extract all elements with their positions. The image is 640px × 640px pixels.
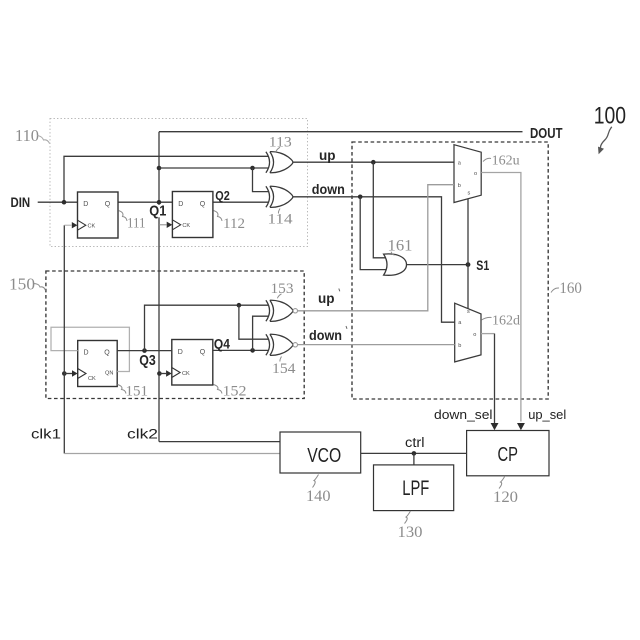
svg-text:o: o xyxy=(473,332,476,338)
label 161 with leader xyxy=(388,238,413,256)
label 120 with leader xyxy=(493,476,518,506)
label clk2 xyxy=(127,427,158,442)
label Q3 xyxy=(139,352,156,369)
label S1 xyxy=(476,257,489,273)
white mask under Q1 label xyxy=(149,205,168,218)
svg-text:o: o xyxy=(474,171,477,177)
wire mux 162d output stub (gray) xyxy=(481,333,495,335)
label 160 with leader xyxy=(551,280,582,297)
svg-text:down_sel: down_sel xyxy=(434,407,493,422)
wire ctrl stub to LPF xyxy=(413,453,415,465)
block LPF xyxy=(374,465,454,511)
svg-text:150: 150 xyxy=(9,275,35,294)
svg-text:130: 130 xyxy=(398,524,423,541)
block VCO xyxy=(280,432,361,473)
wire S1 up to mux 162u select xyxy=(467,199,469,265)
svg-text:S1: S1 xyxy=(476,257,489,273)
node ctrl xyxy=(412,451,417,456)
svg-text:QN: QN xyxy=(105,370,113,376)
mux 162u xyxy=(454,145,481,203)
svg-text:DIN: DIN xyxy=(11,194,31,210)
svg-text:up: up xyxy=(318,291,335,306)
label up' xyxy=(318,289,340,306)
svg-text:140: 140 xyxy=(306,488,331,505)
wire down' (gray) XOR154 to mux 162d input b xyxy=(298,344,455,346)
mux 162d xyxy=(455,303,481,362)
label ctrl xyxy=(405,435,425,450)
wire DIN input xyxy=(38,201,78,203)
wire Q4: FF152.Q to XOR154 xyxy=(213,349,268,351)
wire Q3: FF151.Q to FF152.D xyxy=(117,350,172,352)
node branch to XOR114 xyxy=(250,166,255,171)
bubble on XOR154 output xyxy=(293,343,297,347)
label 140 with leader xyxy=(306,475,331,505)
svg-text:ctrl: ctrl xyxy=(405,435,425,450)
label DIN xyxy=(11,194,31,210)
label Q1 xyxy=(149,203,166,220)
label Q4 xyxy=(214,335,230,351)
dashed box 160 (selector block) xyxy=(352,142,548,399)
svg-text:Q: Q xyxy=(104,350,110,357)
wire branch down to XOR154 upper input xyxy=(239,305,268,339)
svg-text:Q: Q xyxy=(200,201,206,208)
svg-text:clk2: clk2 xyxy=(127,427,158,442)
svg-text:113: 113 xyxy=(269,134,292,150)
wire clk1 stub to FF151 xyxy=(64,373,72,375)
wire down (XOR114 output) xyxy=(293,197,455,322)
label 112 with leader xyxy=(214,211,246,232)
svg-text:Q: Q xyxy=(105,201,111,208)
svg-text:D: D xyxy=(83,201,88,208)
wire DOUT line xyxy=(159,131,523,133)
svg-text:s: s xyxy=(468,191,471,197)
wire clk2 horizontal to VCO xyxy=(159,441,280,443)
clock arrow into FF152 CK xyxy=(166,370,172,376)
label 150 with leader xyxy=(9,275,46,294)
svg-text:down: down xyxy=(312,182,345,197)
svg-text:CK: CK xyxy=(182,371,190,377)
wire Q2: FF112.Q to XOR114 lower input xyxy=(213,201,268,203)
node up branch to OR161 xyxy=(371,160,376,165)
wire Q3 riser to XOR153 xyxy=(145,305,269,350)
svg-text:154: 154 xyxy=(272,361,296,377)
wire clk1 horizontal to VCO (gray) xyxy=(64,453,280,455)
block CP xyxy=(467,431,549,476)
dashed box 150 (phase detector 2) xyxy=(46,271,304,399)
svg-text:b: b xyxy=(458,343,461,349)
svg-text:CK: CK xyxy=(88,376,96,382)
svg-text:CP: CP xyxy=(498,444,519,466)
svg-text:D: D xyxy=(178,349,183,356)
svg-text:100: 100 xyxy=(594,103,626,130)
node clk2 at FF152 xyxy=(157,371,162,376)
wire down to OR161 input xyxy=(360,197,388,270)
wire branch down to XOR114 upper input xyxy=(253,168,269,192)
svg-text:down: down xyxy=(309,328,342,343)
node Q1 branch xyxy=(157,166,162,171)
svg-text:D: D xyxy=(178,201,183,208)
label 110 with leader xyxy=(15,126,50,145)
wire up' (gray) XOR153 to mux 162u input b xyxy=(298,185,455,311)
label 151 with leader xyxy=(118,384,149,400)
svg-text:Q4: Q4 xyxy=(214,335,230,351)
wire S1 from OR161 output xyxy=(407,264,468,266)
node Q3 xyxy=(142,348,147,353)
arrow under 100 xyxy=(598,127,612,155)
clock stub into FF112 CK xyxy=(159,222,172,228)
label 100 xyxy=(594,103,626,130)
svg-text:CK: CK xyxy=(88,223,96,229)
svg-text:162d: 162d xyxy=(492,314,520,329)
wire up (XOR113 output to mux 162u input a) xyxy=(293,161,454,163)
node Q3 branch xyxy=(237,303,242,308)
svg-text:Q1: Q1 xyxy=(149,203,166,220)
svg-text:VCO: VCO xyxy=(307,445,341,467)
node down branch to OR161 xyxy=(358,195,363,200)
label 152 with leader xyxy=(214,384,247,400)
svg-text:Q: Q xyxy=(200,349,206,356)
flip-flop 152 xyxy=(172,340,213,386)
label down xyxy=(312,182,345,197)
svg-text:160: 160 xyxy=(559,280,582,297)
XOR gate 114 xyxy=(266,186,293,207)
label 153 with leader xyxy=(271,281,294,299)
dashed box 110 (phase detector 1) xyxy=(50,119,308,247)
wire S1 down to mux 162d select xyxy=(467,265,469,309)
XOR gate 154 xyxy=(266,334,293,355)
wire clk1 stub to FF111 (faint) xyxy=(64,224,72,226)
svg-text:114: 114 xyxy=(268,212,294,228)
label Q2 xyxy=(215,188,230,203)
clock arrow into FF151 CK xyxy=(72,370,78,376)
svg-text:Q3: Q3 xyxy=(139,352,156,369)
label clk1 xyxy=(31,427,61,442)
flip-flop 111 xyxy=(78,192,119,238)
wire clk2 stub to FF152 xyxy=(159,373,166,375)
svg-text:112: 112 xyxy=(223,216,245,232)
svg-text:b: b xyxy=(458,183,461,189)
label 114 with leader xyxy=(268,209,294,228)
svg-text:LPF: LPF xyxy=(402,477,429,500)
wire mux 162u output to up_sel (gray) xyxy=(481,173,521,422)
label 111 with leader xyxy=(119,211,146,232)
wire up to OR161 input xyxy=(373,162,387,258)
svg-text:110: 110 xyxy=(15,126,39,145)
flip-flop 112 xyxy=(172,192,213,238)
OR gate 161 xyxy=(384,254,407,275)
arrow up_sel into CP xyxy=(517,423,525,430)
wire down_sel to CP xyxy=(494,334,496,423)
svg-text:153: 153 xyxy=(271,281,294,297)
wire FF151 QN feedback loop (gray) xyxy=(51,327,129,371)
node Q4 branch xyxy=(250,348,255,353)
wire DIN riser to XOR113 xyxy=(64,156,268,202)
svg-text:clk1: clk1 xyxy=(31,427,61,442)
label DOUT xyxy=(530,126,563,142)
label down_sel xyxy=(434,407,493,422)
svg-text:up: up xyxy=(319,148,336,163)
label up xyxy=(319,148,336,163)
wire Q1: FF111.Q to FF112.D xyxy=(118,201,172,203)
svg-text:151: 151 xyxy=(126,384,149,400)
XOR gate 113 xyxy=(266,152,293,173)
clock arrow into FF111 CK xyxy=(72,222,78,228)
svg-text:s: s xyxy=(467,309,470,315)
svg-text:111: 111 xyxy=(127,216,146,232)
svg-text:162u: 162u xyxy=(492,152,520,167)
svg-text:120: 120 xyxy=(493,489,518,506)
label 113 with leader xyxy=(269,134,292,152)
node Q1 junction xyxy=(157,200,162,205)
svg-text:DOUT: DOUT xyxy=(530,126,563,142)
wire clk1 vertical xyxy=(63,225,65,453)
bubble on XOR153 output xyxy=(293,309,297,313)
label up_sel xyxy=(528,407,566,422)
node DIN junction xyxy=(62,200,67,205)
node S1 xyxy=(466,262,471,267)
label 162u with leader xyxy=(483,152,520,167)
flip-flop 151 xyxy=(78,341,118,387)
XOR gate 153 xyxy=(266,300,293,321)
wire branch up to XOR153 lower input xyxy=(253,316,269,350)
label down' xyxy=(309,326,347,343)
svg-text:152: 152 xyxy=(223,384,247,400)
wire Q1 riser / clk2 vertical xyxy=(158,132,160,442)
node clk1 at FF151 xyxy=(62,371,67,376)
svg-text:Q2: Q2 xyxy=(215,188,230,203)
svg-text:CK: CK xyxy=(182,223,190,229)
label 162d with leader xyxy=(482,314,521,329)
arrow down_sel into CP xyxy=(491,423,499,430)
label 130 with leader xyxy=(398,511,423,541)
svg-text:up_sel: up_sel xyxy=(528,407,566,422)
wire Q1 to XOR113 lower input xyxy=(159,167,268,169)
svg-text:D: D xyxy=(84,350,89,357)
label 154 with leader xyxy=(272,357,296,377)
wire ctrl: VCO to CP xyxy=(361,452,467,454)
